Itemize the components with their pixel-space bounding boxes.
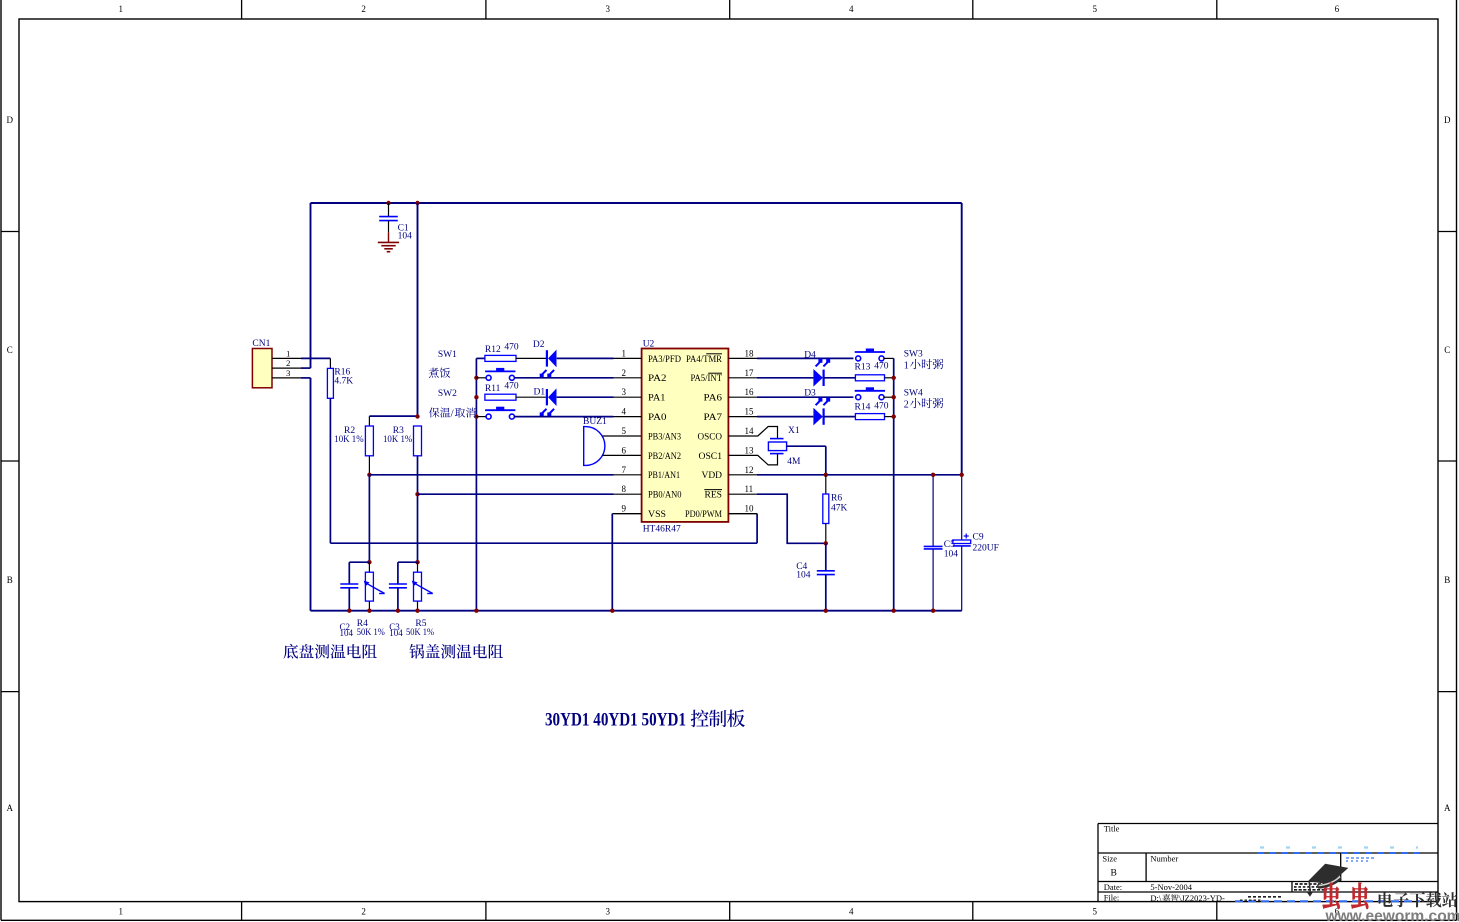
junction R14 right xyxy=(892,414,896,418)
wire right key vertical xyxy=(893,358,895,610)
svg-text:470: 470 xyxy=(504,381,519,391)
svg-text:PB1/AN1: PB1/AN1 xyxy=(648,471,680,481)
junction SW2 row xyxy=(474,414,478,418)
svg-text:B: B xyxy=(7,575,13,585)
capacitor C3 xyxy=(389,584,407,611)
junction R13 right xyxy=(892,376,896,380)
svg-text:50K 1%: 50K 1% xyxy=(406,628,434,638)
svg-text:104: 104 xyxy=(340,628,354,638)
title block file path xyxy=(1150,893,1225,903)
junction switch vertical ground xyxy=(474,609,478,613)
svg-text:10K 1%: 10K 1% xyxy=(383,435,412,445)
label R12 xyxy=(485,342,519,355)
watermark url xyxy=(1324,908,1459,922)
title block frame xyxy=(1098,824,1438,902)
label R14 xyxy=(855,402,889,413)
junction R11 row xyxy=(474,395,478,399)
junction C9 top xyxy=(960,473,964,477)
thermistor R5 xyxy=(412,562,433,611)
junction at VDD vertical top xyxy=(415,201,419,205)
svg-text:4: 4 xyxy=(622,407,627,417)
svg-text:Size: Size xyxy=(1102,854,1117,864)
U2 pin 2 stub xyxy=(614,368,642,378)
switch SW4 xyxy=(855,387,894,399)
label SW2 xyxy=(438,389,457,399)
svg-text:PA6: PA6 xyxy=(704,394,723,404)
U2 pin 7 stub xyxy=(614,465,642,475)
label BUZ1 xyxy=(583,417,607,427)
wire R16 to PD0/PWM xyxy=(330,398,757,543)
wire D4 to R13 xyxy=(824,377,855,379)
label SW3 function xyxy=(904,359,944,371)
junction SW1 row xyxy=(474,376,478,380)
U2 pin 8 name xyxy=(648,491,682,501)
wire PB0/AN0 row xyxy=(418,493,614,495)
svg-text:47K: 47K xyxy=(831,504,848,514)
title block labels xyxy=(1102,824,1192,903)
svg-text:D3: D3 xyxy=(804,388,816,398)
junction C5 top xyxy=(931,473,935,477)
buzzer BUZ1 xyxy=(584,427,642,466)
resistor R13 xyxy=(855,375,893,381)
svg-text:1: 1 xyxy=(622,348,627,358)
svg-text:15: 15 xyxy=(745,407,755,417)
watermark chongchong red characters xyxy=(1323,883,1369,909)
svg-text:HT46R47: HT46R47 xyxy=(643,524,681,534)
svg-text:12: 12 xyxy=(745,465,754,475)
label R3 xyxy=(383,426,412,445)
label HT46R47 xyxy=(643,524,681,534)
switch SW3 xyxy=(855,349,894,361)
svg-text:Number: Number xyxy=(1150,854,1178,864)
U2 pin 6 name xyxy=(648,452,681,462)
capacitor C1 xyxy=(379,203,398,232)
wire to C2 xyxy=(349,562,369,583)
junction C4 ground xyxy=(824,609,828,613)
svg-text:PA7: PA7 xyxy=(704,413,723,423)
svg-text:www.eeworm.com: www.eeworm.com xyxy=(1324,908,1459,922)
svg-text:D: D xyxy=(7,115,14,125)
resistor R12 xyxy=(485,355,516,361)
wire R3 bottom vertical xyxy=(417,456,419,562)
wire switch common vertical xyxy=(476,358,485,610)
wire R11 to D1 xyxy=(516,396,547,398)
label R4 xyxy=(357,619,385,638)
U2 pin 4 stub xyxy=(614,407,642,417)
wire D2 to pin1 xyxy=(557,357,614,359)
svg-text:1: 1 xyxy=(904,360,909,371)
blue dashed artifact lower xyxy=(1235,900,1420,902)
svg-text:D:\: D:\ xyxy=(1150,893,1162,903)
svg-text:OSCO: OSCO xyxy=(698,432,723,442)
U2 pin 5 name xyxy=(648,432,681,442)
U2 pin 18 stub xyxy=(728,348,757,358)
wire R12 to D2 xyxy=(516,357,547,359)
crystal X1 pin14 lead xyxy=(757,427,778,439)
svg-text:PB0/AN0: PB0/AN0 xyxy=(648,491,682,501)
U2 pin 14 name xyxy=(698,432,723,442)
label C1 value xyxy=(398,223,413,241)
label SW1 function xyxy=(429,368,451,378)
wire VDD top rail xyxy=(311,202,962,204)
wire ground bottom rail xyxy=(311,610,962,612)
svg-text:VDD: VDD xyxy=(702,471,723,481)
U2 pin 17 stub xyxy=(728,368,757,378)
U2 pin 1 name xyxy=(648,355,681,365)
thermistor R4 xyxy=(364,562,385,611)
wire VDD vertical xyxy=(417,203,419,417)
U2 pin 16 name xyxy=(704,394,723,404)
svg-text:9: 9 xyxy=(622,504,627,514)
svg-text:470: 470 xyxy=(874,402,889,412)
svg-text:B: B xyxy=(1444,575,1450,585)
op-amp U2 body xyxy=(642,349,729,522)
svg-text:D: D xyxy=(1444,115,1451,125)
junction R6-C4 xyxy=(824,541,828,545)
label SW4 function xyxy=(904,398,944,410)
junction R2 bottom xyxy=(367,473,371,477)
resistor R14 xyxy=(855,414,893,420)
svg-text:18: 18 xyxy=(745,348,755,358)
svg-text:6: 6 xyxy=(1335,4,1340,14)
U2 pin 11 name xyxy=(704,490,722,501)
label X1 value xyxy=(787,457,801,467)
U2 pin 9 stub xyxy=(614,504,642,514)
svg-text:13: 13 xyxy=(745,445,755,455)
CN1 pin 2 xyxy=(272,358,301,368)
svg-text:2: 2 xyxy=(361,907,366,917)
U2 pin 10 stub xyxy=(728,504,757,514)
svg-text:2: 2 xyxy=(286,358,290,368)
border column labels bottom xyxy=(119,907,1340,917)
svg-text:C: C xyxy=(1444,345,1450,355)
border row labels right xyxy=(1444,115,1451,813)
junction SW4 right xyxy=(892,395,896,399)
svg-text:X1: X1 xyxy=(788,426,800,436)
svg-text:3: 3 xyxy=(286,368,290,378)
svg-text:7: 7 xyxy=(622,465,627,475)
label SW1 xyxy=(438,350,457,360)
svg-text:5: 5 xyxy=(622,426,627,436)
svg-text:4.7K: 4.7K xyxy=(334,377,353,387)
capacitor C5 xyxy=(924,475,943,611)
svg-text:PB2/AN2: PB2/AN2 xyxy=(648,452,681,462)
svg-text:SW2: SW2 xyxy=(438,389,457,399)
svg-text:10K 1%: 10K 1% xyxy=(334,435,363,445)
svg-text:CN1: CN1 xyxy=(252,339,270,349)
label R5 xyxy=(406,619,434,638)
revision faded text xyxy=(1346,858,1375,861)
svg-text:R14: R14 xyxy=(855,403,871,413)
wire SW2 to pin4 xyxy=(514,416,613,418)
label R11 xyxy=(485,381,519,394)
junction PB0 row start xyxy=(415,492,419,496)
border column labels top xyxy=(119,4,1340,14)
svg-text:4: 4 xyxy=(849,4,854,14)
wire RES to R6 bottom xyxy=(757,494,826,543)
junction VSS ground xyxy=(610,609,614,613)
U2 pin 12 stub xyxy=(728,465,757,475)
svg-text:3: 3 xyxy=(605,4,610,14)
svg-text:D2: D2 xyxy=(533,340,545,350)
svg-text:PD0/PWM: PD0/PWM xyxy=(685,510,722,520)
label R13 xyxy=(855,362,889,373)
border row labels left xyxy=(7,115,14,813)
label D2 xyxy=(533,340,545,350)
label D3 xyxy=(804,388,816,398)
junction at C1 top xyxy=(386,201,390,205)
svg-text:PA3/PFD: PA3/PFD xyxy=(648,355,681,365)
U2 pin 4 name xyxy=(648,413,667,423)
wire PD0 stub xyxy=(728,513,757,515)
svg-text:10: 10 xyxy=(745,504,755,514)
svg-text:D1: D1 xyxy=(534,388,546,398)
svg-text:1: 1 xyxy=(286,348,290,358)
ground symbol xyxy=(378,232,399,252)
connector CN1 xyxy=(252,349,272,388)
wire right rail xyxy=(961,203,963,540)
svg-text:1: 1 xyxy=(119,907,124,917)
svg-text:RES: RES xyxy=(705,491,723,501)
watermark graduation cap xyxy=(1307,864,1349,897)
svg-text:File:: File: xyxy=(1104,893,1120,903)
svg-text:16: 16 xyxy=(745,387,755,397)
svg-text:PB3/AN3: PB3/AN3 xyxy=(648,432,681,442)
svg-text:104: 104 xyxy=(398,232,413,242)
svg-text:5: 5 xyxy=(1093,4,1098,14)
U2 pin 12 name xyxy=(702,471,723,481)
sheet title 30YD1 40YD1 50YD1 control board xyxy=(545,709,745,730)
junction VDD vertical / R3 top xyxy=(415,414,419,418)
U2 pin 1 stub xyxy=(614,348,642,358)
svg-text:PA5/INT: PA5/INT xyxy=(691,374,723,384)
wire PB1/AN1 row xyxy=(369,474,613,476)
svg-text:/: / xyxy=(451,409,454,420)
U2 pin 13 stub xyxy=(728,445,757,455)
label U2 xyxy=(643,339,655,349)
wire SW1 to pin2 xyxy=(514,377,613,379)
switch SW2 xyxy=(476,407,515,419)
svg-text:Title: Title xyxy=(1104,824,1120,834)
junction VDD-R6 xyxy=(824,473,828,477)
garbled sheet text xyxy=(1240,884,1330,900)
U2 pin 11 stub xyxy=(728,484,757,494)
svg-text:PA1: PA1 xyxy=(648,394,666,404)
svg-text:U2: U2 xyxy=(643,339,655,349)
label R16 xyxy=(334,367,353,386)
svg-text:5-Nov-2004: 5-Nov-2004 xyxy=(1150,882,1192,892)
wire pin16 to SW4 xyxy=(757,396,853,398)
svg-text:104: 104 xyxy=(796,571,811,581)
svg-text:PA0: PA0 xyxy=(648,413,667,423)
U2 pin 2 name xyxy=(648,374,667,384)
junction R4 node xyxy=(367,560,371,564)
wire R2 top to VDD vertical xyxy=(369,416,417,426)
wire VDD row xyxy=(757,474,962,476)
watermark site name xyxy=(1379,892,1458,907)
svg-text:SW3: SW3 xyxy=(904,350,923,360)
U2 pin 3 stub xyxy=(614,387,642,397)
svg-text:220UF: 220UF xyxy=(973,543,999,553)
svg-text:R11: R11 xyxy=(485,384,501,394)
junction R5 node xyxy=(415,560,419,564)
svg-text:B: B xyxy=(1111,868,1117,878)
junctions on ground rail left xyxy=(347,609,420,613)
svg-text:17: 17 xyxy=(745,368,755,378)
svg-text:\JZ2023-YD-: \JZ2023-YD- xyxy=(1179,893,1225,903)
resistor R11 xyxy=(485,394,516,400)
U2 pin 5 stub xyxy=(603,426,642,436)
wire crystal to VDD node xyxy=(787,446,826,475)
diode D2 xyxy=(540,350,557,378)
svg-text:4: 4 xyxy=(849,907,854,917)
U2 pin 18 name xyxy=(686,354,723,365)
svg-text:2: 2 xyxy=(622,368,627,378)
junction C5 ground xyxy=(931,609,935,613)
capacitor C2 xyxy=(340,584,358,611)
svg-text:4M: 4M xyxy=(787,457,801,467)
capacitor C9 polarized xyxy=(953,534,971,611)
label SW4 xyxy=(904,389,923,399)
U2 pin 14 stub xyxy=(728,426,757,436)
wire VSS to ground xyxy=(612,514,641,611)
wire pin15 to D3 xyxy=(757,416,813,418)
U2 pin 9 name xyxy=(648,510,666,520)
U2 pin 17 name xyxy=(691,373,723,384)
svg-text:104: 104 xyxy=(944,550,959,560)
svg-text:SW1: SW1 xyxy=(438,350,457,360)
diode D3 xyxy=(813,398,830,426)
svg-text:A: A xyxy=(7,803,14,813)
label C2 xyxy=(340,622,354,638)
svg-text:470: 470 xyxy=(874,362,889,372)
label X1 xyxy=(788,426,800,436)
svg-text:14: 14 xyxy=(745,426,755,436)
svg-text:11: 11 xyxy=(745,484,754,494)
resistor R6 xyxy=(823,475,829,544)
U2 pin 15 stub xyxy=(728,407,757,417)
svg-text:1: 1 xyxy=(119,4,124,14)
wire R2 bottom to PB1 row xyxy=(368,456,370,475)
U2 pin 7 name xyxy=(648,471,680,481)
wire pin17 to D4 xyxy=(757,377,813,379)
crystal X1 pin13 lead xyxy=(757,454,778,465)
U2 pin 6 stub xyxy=(603,445,642,455)
caption lid sensor xyxy=(409,644,502,659)
label C3 xyxy=(389,622,403,638)
svg-text:SW4: SW4 xyxy=(904,389,923,399)
wire R2 node down to R4 xyxy=(368,475,370,562)
label C4 xyxy=(796,562,811,581)
U2 pin 10 name xyxy=(685,510,722,520)
label D4 xyxy=(804,350,816,360)
svg-text:3: 3 xyxy=(605,907,610,917)
svg-text:A: A xyxy=(1444,803,1451,813)
svg-text:C: C xyxy=(7,345,13,355)
wire D3 to R14 xyxy=(824,416,855,418)
CN1 pin 3 xyxy=(272,368,301,378)
CN1 pin 1 xyxy=(272,348,301,358)
label R6 xyxy=(831,494,848,514)
U2 pin 16 stub xyxy=(728,387,757,397)
caption bottom-plate sensor xyxy=(283,644,376,659)
svg-text:104: 104 xyxy=(389,628,403,638)
crystal X1 xyxy=(768,439,786,454)
blue dashed artifact upper xyxy=(1257,848,1419,854)
svg-text:C9: C9 xyxy=(973,533,984,543)
capacitor C4 xyxy=(817,543,835,610)
label SW3 xyxy=(904,350,923,360)
resistor R2 xyxy=(365,426,373,456)
label R2 xyxy=(334,426,363,445)
label C5 xyxy=(944,540,959,560)
U2 pin 3 name xyxy=(648,394,666,404)
diode D4 xyxy=(813,359,830,387)
svg-text:R12: R12 xyxy=(485,345,501,355)
junction key vertical ground xyxy=(892,609,896,613)
svg-text:OSC1: OSC1 xyxy=(699,452,723,462)
svg-text:R13: R13 xyxy=(855,362,871,372)
wire left rail (CN1 pin2 to VDD) xyxy=(301,203,311,368)
resistor R3 xyxy=(414,426,422,456)
svg-text:D4: D4 xyxy=(804,350,816,360)
svg-text:6: 6 xyxy=(622,445,627,455)
label CN1 xyxy=(252,339,270,349)
U2 pin 15 name xyxy=(704,413,723,423)
svg-text:R6: R6 xyxy=(831,494,842,504)
border column ticks xyxy=(242,0,1217,920)
svg-text:5: 5 xyxy=(1093,907,1098,917)
switch SW1 xyxy=(476,368,515,380)
label SW2 function xyxy=(429,407,476,419)
svg-text:50K 1%: 50K 1% xyxy=(357,628,385,638)
svg-text:PA4/TMR: PA4/TMR xyxy=(686,355,723,365)
svg-text:Date:: Date: xyxy=(1104,882,1122,892)
border row ticks xyxy=(1,232,1457,692)
U2 pin 8 stub xyxy=(614,484,642,494)
diode D1 xyxy=(540,388,557,416)
resistor R16 xyxy=(327,368,333,398)
wire CN1 pin1 to R16 xyxy=(301,358,330,368)
svg-text:30YD1 40YD1 50YD1: 30YD1 40YD1 50YD1 xyxy=(545,709,686,730)
svg-text:BUZ1: BUZ1 xyxy=(583,417,607,427)
wire left rail (CN1 pin3 to GND) xyxy=(301,378,311,611)
svg-text:2: 2 xyxy=(361,4,366,14)
svg-text:PA2: PA2 xyxy=(648,374,667,384)
wire to C3 xyxy=(398,562,418,583)
svg-text:3: 3 xyxy=(622,387,627,397)
svg-text:VSS: VSS xyxy=(648,510,666,520)
wire pin18 to SW3 xyxy=(757,357,853,359)
wire D1 to pin3 xyxy=(557,396,614,398)
label C9 xyxy=(973,533,999,554)
svg-text:2: 2 xyxy=(904,399,909,410)
label D1 xyxy=(534,388,546,398)
svg-text:8: 8 xyxy=(622,484,627,494)
U2 pin 13 name xyxy=(699,452,723,462)
svg-text:470: 470 xyxy=(504,342,519,352)
